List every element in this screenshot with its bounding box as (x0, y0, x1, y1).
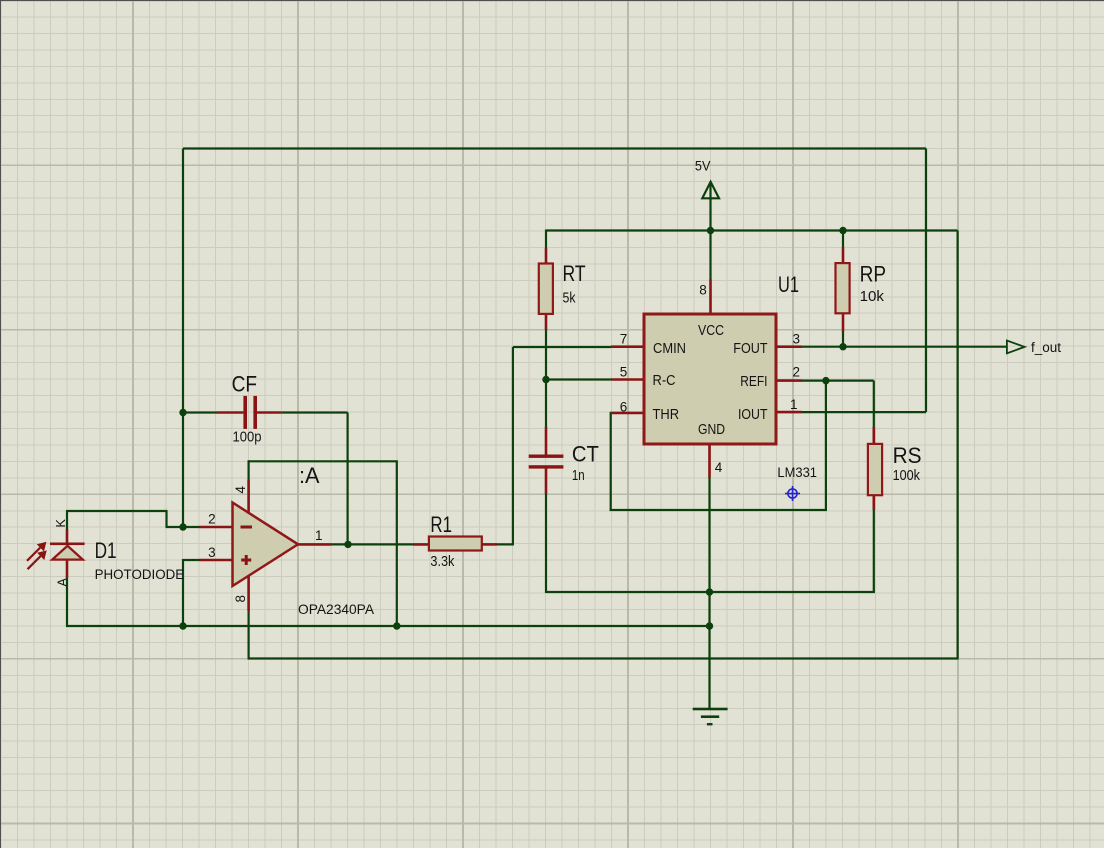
capacitor CF (243, 396, 247, 429)
svg-text:5k: 5k (563, 290, 576, 307)
node: ground bus / U1 GND junction (706, 622, 713, 629)
node: CF/feedback junction (179, 409, 186, 416)
node: RP bottom / FOUT junction (839, 343, 846, 350)
wire: 5V symbol drop (709, 183, 711, 280)
wire: R1 to CMIN (496, 543, 514, 545)
wire: ground bus bottom (66, 625, 710, 627)
node: op-amp output junction (344, 541, 351, 548)
pin stubs: RT (545, 248, 548, 264)
svg-text:5: 5 (620, 365, 628, 380)
svg-text:A: A (56, 578, 70, 587)
wire: CF left segment (183, 411, 217, 413)
pin stubs: R1 (413, 543, 429, 546)
svg-text::A: :A (299, 463, 320, 488)
svg-text:PHOTODIODE: PHOTODIODE (95, 566, 185, 582)
wire: CT bottom drop (545, 494, 547, 594)
svg-text:2: 2 (793, 365, 801, 380)
resistor RT body (539, 264, 553, 314)
svg-text:CT: CT (572, 442, 599, 467)
wire: IOUT riser to top bus (925, 149, 927, 413)
svg-text:LM331: LM331 (777, 464, 817, 480)
svg-text:1: 1 (315, 528, 323, 543)
resistor RP body (836, 263, 850, 313)
ground symbol (693, 708, 728, 711)
svg-text:RS: RS (893, 443, 922, 468)
svg-text:1n: 1n (572, 467, 585, 484)
svg-text:D1: D1 (95, 538, 117, 563)
svg-text:7: 7 (620, 332, 628, 347)
wire: RP top drop (842, 230, 844, 249)
svg-text:3.3k: 3.3k (430, 553, 454, 570)
5V power symbol (702, 182, 719, 199)
op-amp minus symbol (241, 526, 253, 529)
svg-text:OPA2340PA: OPA2340PA (298, 601, 375, 617)
svg-text:K: K (54, 519, 68, 528)
svg-text:8: 8 (699, 283, 707, 298)
svg-text:3: 3 (208, 545, 216, 560)
wire: op-amp pin4 loop (248, 460, 250, 480)
node: RT/CT/R-C junction (542, 376, 549, 383)
svg-text:IOUT: IOUT (738, 406, 768, 423)
svg-text:RT: RT (563, 261, 586, 286)
wire: U1 GND drop to ground (708, 478, 710, 710)
wire: feedback top bus (183, 147, 926, 149)
IC U1 LM331 body (644, 314, 776, 444)
photodiode D1 symbol (50, 543, 85, 546)
node: inverting input junction (179, 523, 186, 530)
wire: IOUT horizontal (801, 411, 926, 413)
svg-text:4: 4 (715, 460, 723, 475)
svg-text:1: 1 (790, 397, 798, 412)
wire: RT top drop (545, 230, 547, 249)
wire: CF right segment (281, 411, 347, 413)
svg-text:2: 2 (208, 512, 216, 527)
wire: non-inverting input branch (183, 559, 200, 561)
svg-text:U1: U1 (778, 272, 799, 297)
node: ground bus / pin4 junction (393, 622, 400, 629)
svg-text:3: 3 (793, 332, 801, 347)
origin marker (blue) (785, 486, 800, 501)
terminal f_out (1007, 341, 1025, 354)
svg-text:CF: CF (232, 372, 257, 397)
pin stubs: op-amp U2:A (200, 526, 233, 529)
svg-text:REFI: REFI (740, 373, 767, 390)
wire: op-amp output to R1 (331, 543, 414, 545)
wire: RP bottom to FOUT (842, 331, 844, 348)
svg-text:100p: 100p (233, 429, 262, 446)
resistor RS body (868, 444, 882, 495)
op-amp plus symbol (241, 559, 251, 562)
wire: RT bottom to node (545, 330, 547, 381)
svg-text:5V: 5V (695, 158, 711, 174)
pin stubs: photodiode D1 (66, 529, 69, 543)
svg-text:R1: R1 (430, 512, 452, 537)
wire: photodiode A drop (66, 577, 68, 627)
node: ground bus / pin3 junction (179, 622, 186, 629)
op-amp U2:A body (233, 503, 299, 587)
wire: node to CT top (545, 380, 547, 428)
wire: 5V supply bus (546, 229, 958, 231)
svg-text:100k: 100k (893, 467, 921, 484)
capacitor CT (529, 455, 564, 458)
svg-text:CMIN: CMIN (653, 340, 686, 357)
wire: photodiode K to inverting input (66, 511, 68, 529)
node: RP top junction (839, 227, 846, 234)
wire: op-amp pin8 to 5V rail (248, 610, 250, 659)
wire: left feedback vertical (182, 149, 184, 528)
svg-text:4: 4 (233, 486, 248, 494)
svg-text:f_out: f_out (1031, 340, 1061, 355)
svg-text:R-C: R-C (653, 372, 676, 389)
svg-text:GND: GND (698, 421, 725, 438)
pin stubs: RP (842, 248, 845, 264)
svg-text:VCC: VCC (698, 322, 724, 339)
resistor R1 body (429, 537, 482, 551)
node: REFI junction (822, 377, 829, 384)
pin stubs: U1 top (8) and bottom (4) (709, 280, 712, 315)
wire: REFI to RS top (801, 380, 874, 382)
pin stubs: U1 left (7,5,6) (611, 345, 645, 348)
svg-text:FOUT: FOUT (733, 340, 767, 357)
wire: FOUT to terminal (801, 346, 1006, 348)
node: CT-RS link / GND junction (706, 588, 713, 595)
node: 5V rail junction (707, 227, 714, 234)
wire: CT/RS bottom link (546, 591, 875, 593)
svg-text:RP: RP (860, 262, 887, 287)
svg-text:THR: THR (653, 406, 680, 423)
wire: CF output drop (347, 413, 349, 545)
svg-text:8: 8 (233, 595, 248, 603)
wire: THR loop to REFI (611, 412, 612, 414)
pin stubs: RS (872, 427, 875, 444)
pin stubs: CF capacitor (217, 411, 244, 414)
photodiode D1 light arrows (27, 543, 45, 569)
svg-text:6: 6 (620, 400, 628, 415)
pin stubs: U1 right (3,2,1) (776, 345, 802, 348)
svg-text:10k: 10k (860, 288, 885, 305)
pin stubs: CT (545, 427, 548, 455)
wire: R-C horizontal (546, 378, 611, 380)
